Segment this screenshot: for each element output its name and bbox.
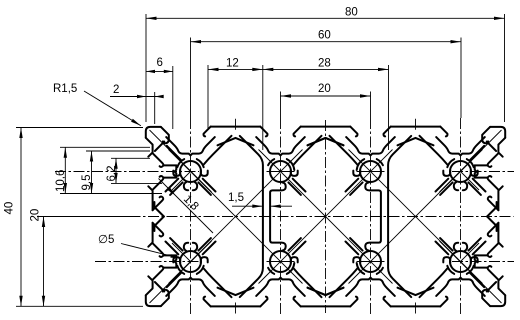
profile cross-section: bottom-right quadrant (mirrored)	[308, 217, 506, 307]
corner block with 45-deg corner slot	[146, 295, 161, 306]
dimension 40 (overall height)	[4, 128, 144, 307]
profile cross-section: top-right quadrant (mirrored)	[308, 127, 506, 217]
dimension 10,6	[55, 147, 162, 193]
45-deg 1.8mm wall pairs at nodes	[203, 179, 216, 192]
tube outer wall arcs	[177, 266, 184, 274]
left-face slot and clamping wedge	[488, 243, 499, 257]
profile cross-section: top-left quadrant	[146, 127, 344, 217]
tube outer wall arcs	[467, 159, 474, 167]
core bore node 1 (diam 5) with retaining hooks	[450, 251, 471, 272]
dimension 28 (slot span)	[263, 58, 389, 151]
T-slot 2 (top face)	[294, 297, 301, 307]
left-face slot and clamping wedge	[488, 176, 499, 190]
diameter label 5 with leader	[98, 234, 181, 259]
core bore node 2 (diam 5) with retaining hooks	[270, 161, 291, 182]
vertical 1.5mm web	[240, 217, 263, 298]
vertical 1.5mm web	[240, 136, 263, 217]
T-slot 2 (top face)	[294, 127, 301, 137]
dimension 12 (slot web width)	[208, 58, 263, 130]
core bore node 2 (diam 5) with retaining hooks	[360, 251, 381, 272]
top face flats	[391, 305, 441, 307]
svg-text:∅5: ∅5	[98, 234, 114, 246]
core bore node 2 (diam 5) with retaining hooks	[360, 161, 381, 182]
svg-text:6,2: 6,2	[106, 166, 118, 182]
profile cross-section: bottom-left quadrant (mirrored)	[146, 217, 344, 307]
corner block with 45-deg corner slot	[146, 127, 161, 138]
T-slot 1 (top face)	[204, 297, 211, 307]
core bore node 1 (diam 5) with retaining hooks	[180, 251, 201, 272]
face ridge junctions	[398, 138, 434, 145]
T-slot 1 (top face)	[204, 127, 211, 137]
top face flats	[211, 126, 261, 128]
radius label R1,5 with leader	[53, 83, 141, 126]
vertical 1.5mm web	[388, 136, 411, 217]
svg-text:6: 6	[157, 57, 163, 69]
core bore node 2 (diam 5) with retaining hooks	[270, 251, 291, 272]
dimension 60 (outer slot spacing)	[191, 30, 462, 119]
dimension 1,8 (wall thickness)	[159, 179, 214, 234]
dimension 6,2	[106, 158, 162, 183]
45-deg 1.8mm wall pairs at nodes	[203, 242, 216, 255]
dimension 20 (left, half height)	[30, 209, 133, 307]
dimension 20 (slot pitch, top)	[281, 83, 371, 118]
face ridge junctions	[218, 288, 254, 295]
dimension 2 (edge to corner lip)	[110, 84, 164, 124]
left-face slot and clamping wedge	[153, 243, 164, 257]
dimension 6 (edge to first slot)	[146, 57, 173, 129]
top face flats	[211, 305, 261, 307]
dimension 80 (overall width)	[146, 7, 505, 123]
svg-text:1,5: 1,5	[228, 192, 244, 204]
svg-text:12: 12	[226, 58, 239, 70]
45-deg 1.8mm wall pairs at nodes	[436, 179, 449, 192]
dimension 1,5 (web thickness)	[228, 192, 292, 208]
dash-dot centerlines	[37, 118, 514, 315]
T-slot 1 (top face)	[440, 127, 447, 137]
dimension 9,5	[81, 151, 150, 194]
left-face slot and clamping wedge	[153, 176, 164, 190]
svg-text:40: 40	[4, 202, 16, 215]
svg-text:2: 2	[113, 84, 119, 96]
45-deg 1.8mm wall pairs at nodes	[436, 242, 449, 255]
corner block with 45-deg corner slot	[490, 127, 505, 138]
corner block with 45-deg corner slot	[490, 295, 505, 306]
tube outer wall arcs	[177, 159, 184, 167]
svg-text:9,5: 9,5	[81, 175, 93, 191]
svg-text:28: 28	[318, 58, 331, 70]
svg-text:80: 80	[345, 7, 358, 19]
tube outer wall arcs	[467, 266, 474, 274]
thin 45-degree construction diagonals through nodes	[150, 130, 502, 303]
svg-text:20: 20	[318, 83, 331, 95]
T-slot 1 (top face)	[440, 297, 447, 307]
top face flats	[391, 126, 441, 128]
face ridge junctions	[218, 138, 254, 145]
T-slot 2 (top face)	[350, 297, 357, 307]
svg-text:10,6: 10,6	[55, 170, 67, 192]
core bore node 1 (diam 5) with retaining hooks	[180, 161, 201, 182]
vertical 1.5mm web	[388, 217, 411, 298]
svg-text:R1,5: R1,5	[53, 83, 77, 95]
svg-text:60: 60	[318, 30, 331, 42]
core bore node 1 (diam 5) with retaining hooks	[450, 161, 471, 182]
T-slot 2 (top face)	[350, 127, 357, 137]
face ridge junctions	[398, 288, 434, 295]
svg-text:20: 20	[30, 209, 42, 222]
